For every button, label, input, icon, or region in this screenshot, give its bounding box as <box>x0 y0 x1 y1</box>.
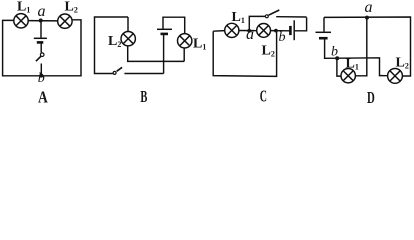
svg-text:D: D <box>367 88 375 106</box>
svg-text:L2: L2 <box>396 56 409 71</box>
svg-text:a: a <box>246 26 254 43</box>
svg-text:b: b <box>279 30 286 45</box>
svg-text:b: b <box>331 44 338 59</box>
svg-text:B: B <box>140 87 147 106</box>
svg-text:L2: L2 <box>65 0 78 15</box>
svg-text:C: C <box>260 87 267 106</box>
svg-text:a: a <box>365 0 373 16</box>
svg-text:L1: L1 <box>17 0 30 15</box>
svg-text:L1: L1 <box>346 57 359 72</box>
svg-text:b: b <box>38 71 45 86</box>
svg-text:L1: L1 <box>232 10 245 25</box>
svg-text:A: A <box>38 88 48 107</box>
svg-text:L2: L2 <box>108 34 121 49</box>
svg-text:L2: L2 <box>262 44 275 59</box>
svg-text:L1: L1 <box>193 37 206 52</box>
svg-text:a: a <box>38 3 46 20</box>
